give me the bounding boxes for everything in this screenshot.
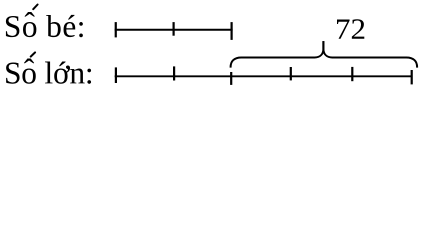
acute accent over "ố" of "Số lớn:" (row 2) (31, 52, 35, 56)
glyph b of "bé" (46, 15, 61, 37)
colon of "Số lớn:" (87, 69, 91, 84)
glyph n of "lớn" (70, 69, 85, 84)
tick: large bar 5 (351, 67, 353, 81)
glyph S of "Số lớn:" (6, 63, 19, 84)
tick: small bar middle (173, 22, 175, 36)
wire: large-number bar line (row 2) (115, 75, 413, 77)
brace left half (over last 3 segments of big bar) (231, 41, 324, 68)
circumflex of "Số" (row 1, raised) (25, 12, 35, 17)
acute accent over "ố" of "Số bé:" (row 1) (33, 5, 37, 10)
circumflex of "Số" (row 2, raised) (24, 59, 34, 64)
glyph S of "Số bé:" (6, 16, 19, 37)
tick: large bar end 1 (115, 67, 117, 83)
colon of "Số bé:" (79, 22, 83, 37)
brace right half (323, 41, 417, 68)
digit 7 of "72" (337, 19, 350, 38)
tick: large bar right end (411, 70, 413, 84)
tick: small bar right end (231, 22, 233, 40)
glyph o of "Số" (row 1) (23, 22, 36, 37)
wire: small-number bar line (row 1) (115, 29, 233, 31)
glyph ớ of "lớn" (54, 62, 70, 84)
tick: large bar 2 (173, 66, 175, 80)
tick: large bar 3 (230, 72, 232, 85)
glyph l of "lớn" (45, 62, 52, 84)
tick: small bar left end (115, 22, 117, 37)
tick: large bar 4 (290, 67, 292, 80)
digit 2 of "72" (352, 19, 364, 39)
glyph o of "Số" (row 2) (22, 69, 35, 84)
glyph é of "bé" (64, 15, 76, 37)
